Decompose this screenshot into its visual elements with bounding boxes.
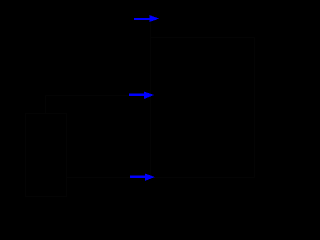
wire (top stub under current arrow) <box>134 18 151 20</box>
wire (right rail down) <box>254 38 256 178</box>
wire (middle branch, horizontal into vertical rail) <box>46 95 151 97</box>
wire (vertical rail) <box>150 19 152 178</box>
wire (riser from box top up to middle branch) <box>45 96 47 114</box>
current arrow I3 (bottom) <box>130 174 155 181</box>
box B1 (left component block) <box>26 114 67 197</box>
wire (bottom branch from box to right rail) <box>67 177 255 179</box>
current arrow I2 (middle) <box>129 92 154 99</box>
wire (top branch to the right) <box>151 37 255 39</box>
current arrow I1 (top) <box>134 15 159 22</box>
